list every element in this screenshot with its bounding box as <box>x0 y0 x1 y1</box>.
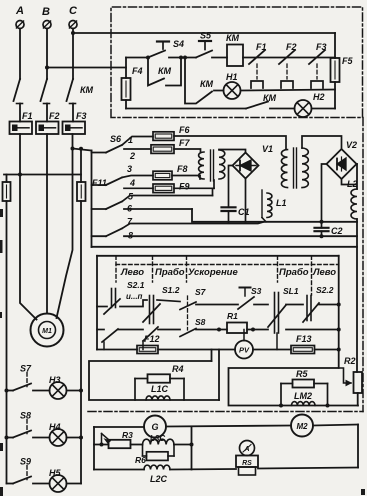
svg-text:S7: S7 <box>20 364 32 374</box>
svg-text:L1C: L1C <box>151 384 169 394</box>
svg-text:R1: R1 <box>227 311 238 321</box>
svg-text:H5: H5 <box>49 468 61 478</box>
svg-text:R4: R4 <box>172 364 184 374</box>
svg-text:R5: R5 <box>296 369 308 379</box>
svg-text:F9: F9 <box>179 182 190 192</box>
svg-text:L2C: L2C <box>150 474 168 484</box>
svg-text:F3: F3 <box>76 111 87 121</box>
svg-text:S1.2: S1.2 <box>162 285 180 295</box>
svg-text:H3: H3 <box>49 375 61 385</box>
svg-text:V1: V1 <box>262 144 273 154</box>
svg-text:М1: М1 <box>42 328 52 335</box>
svg-text:H1: H1 <box>226 72 238 82</box>
svg-text:F7: F7 <box>179 138 190 148</box>
svg-text:Прабо: Прабо <box>155 267 185 278</box>
svg-text:F13: F13 <box>296 334 312 344</box>
svg-text:F1: F1 <box>22 111 33 121</box>
svg-text:S7: S7 <box>195 287 207 297</box>
svg-text:B: B <box>42 6 50 18</box>
svg-text:S2.2: S2.2 <box>316 285 334 295</box>
svg-text:H2: H2 <box>313 92 325 102</box>
svg-text:S8: S8 <box>195 317 206 327</box>
svg-text:и...п: и...п <box>126 292 143 301</box>
svg-text:F5: F5 <box>342 56 353 66</box>
svg-text:S6: S6 <box>110 134 122 144</box>
svg-text:F1: F1 <box>256 42 267 52</box>
svg-text:C1: C1 <box>238 207 250 217</box>
svg-text:F6: F6 <box>179 125 190 135</box>
svg-text:КМ: КМ <box>158 66 172 76</box>
svg-text:A: A <box>15 5 24 17</box>
svg-text:М2: М2 <box>296 422 308 431</box>
svg-text:3: 3 <box>127 164 132 174</box>
svg-text:R2: R2 <box>344 356 356 366</box>
svg-text:КМ: КМ <box>200 79 214 89</box>
svg-text:F8: F8 <box>177 164 188 174</box>
svg-text:V2: V2 <box>346 140 357 150</box>
svg-text:C2: C2 <box>331 226 343 236</box>
svg-text:L2: L2 <box>347 179 358 189</box>
svg-text:Лево: Лево <box>312 267 336 278</box>
svg-text:Лево: Лево <box>120 267 144 278</box>
svg-text:F11: F11 <box>92 178 107 188</box>
svg-text:S2.1: S2.1 <box>127 280 145 290</box>
svg-text:L1: L1 <box>276 198 287 208</box>
svg-text:S4: S4 <box>173 39 184 49</box>
svg-text:КМ: КМ <box>80 85 94 95</box>
svg-text:LМ2: LМ2 <box>294 391 312 401</box>
svg-text:H4: H4 <box>49 422 61 432</box>
svg-text:F4: F4 <box>132 66 143 76</box>
svg-text:C: C <box>69 5 78 17</box>
svg-text:S5: S5 <box>200 31 212 41</box>
svg-text:G: G <box>151 422 158 432</box>
svg-text:S3: S3 <box>251 286 262 296</box>
svg-text:SL1: SL1 <box>283 286 299 296</box>
svg-text:R3: R3 <box>122 430 133 440</box>
svg-text:PV: PV <box>239 346 250 355</box>
svg-text:S8: S8 <box>20 411 31 421</box>
svg-text:4: 4 <box>129 178 135 188</box>
svg-text:S9: S9 <box>20 457 31 467</box>
svg-text:R6: R6 <box>135 455 146 465</box>
svg-text:КМ: КМ <box>226 33 240 43</box>
svg-text:Прабо: Прабо <box>279 267 309 278</box>
svg-text:L3C: L3C <box>150 434 165 443</box>
svg-text:F2: F2 <box>286 42 297 52</box>
svg-text:Ускорение: Ускорение <box>188 267 238 278</box>
svg-text:2: 2 <box>129 151 135 161</box>
svg-text:F2: F2 <box>49 111 60 121</box>
svg-text:КМ: КМ <box>263 93 277 103</box>
svg-text:F3: F3 <box>316 42 327 52</box>
svg-text:RS: RS <box>242 460 252 467</box>
